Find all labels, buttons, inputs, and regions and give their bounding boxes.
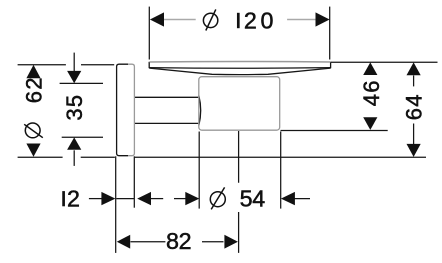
svg-text:0: 0 bbox=[261, 7, 274, 33]
svg-text:2: 2 bbox=[179, 228, 192, 254]
svg-text:62: 62 bbox=[21, 76, 46, 103]
svg-text:35: 35 bbox=[62, 94, 87, 121]
svg-text:46: 46 bbox=[359, 79, 384, 106]
svg-text:4: 4 bbox=[252, 186, 265, 212]
svg-text:8: 8 bbox=[166, 228, 179, 254]
svg-text:2: 2 bbox=[67, 186, 80, 212]
svg-text:5: 5 bbox=[240, 186, 253, 212]
svg-text:64: 64 bbox=[402, 93, 427, 120]
svg-text:2: 2 bbox=[244, 7, 257, 33]
